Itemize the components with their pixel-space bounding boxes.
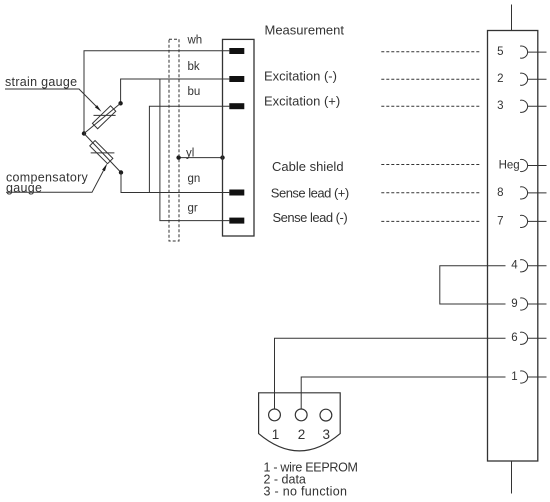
wire bu (blue, Excitation +) with tie-down to gn wire bbox=[149, 106, 229, 192]
compensatory gauge R2 body bbox=[90, 141, 113, 164]
node yl on terminal block bbox=[220, 155, 224, 159]
svg-text:1: 1 bbox=[272, 427, 280, 442]
svg-text:Excitation (-): Excitation (-) bbox=[264, 68, 337, 83]
svg-text:Sense lead (+): Sense lead (+) bbox=[271, 186, 349, 201]
terminal wh bbox=[229, 48, 244, 54]
wire pin 1 to EEPROM pin 2 bbox=[301, 377, 505, 409]
pin 7 bbox=[520, 215, 546, 227]
terminal bk bbox=[229, 76, 244, 82]
svg-text:gr: gr bbox=[188, 203, 198, 215]
pin 9 bbox=[520, 298, 546, 310]
terminal gr bbox=[229, 218, 244, 224]
svg-text:Heg: Heg bbox=[499, 159, 520, 171]
strain gauge R1 body bbox=[92, 106, 115, 129]
strain gauge R1 axis wire bbox=[84, 103, 121, 133]
wire bk (black, Excitation -) from bridge top node to terminal bbox=[121, 79, 230, 103]
compensatory gauge R2 cross line bbox=[91, 152, 115, 154]
svg-text:3 - no function: 3 - no function bbox=[264, 485, 348, 499]
svg-text:7: 7 bbox=[497, 215, 503, 227]
terminal bu bbox=[229, 103, 244, 109]
svg-text:Sense lead (-): Sense lead (-) bbox=[273, 210, 348, 225]
leader line for strain gauge label bbox=[5, 89, 96, 106]
pin Heg bbox=[520, 159, 546, 171]
EEPROM pin 3 circle bbox=[320, 409, 332, 421]
dashed link bk to pin 2 bbox=[381, 78, 480, 80]
wire wh (white) from bridge to terminal block bbox=[84, 51, 229, 134]
svg-text:1: 1 bbox=[511, 371, 517, 383]
dashed link bu to pin 3 bbox=[381, 105, 480, 107]
svg-text:6: 6 bbox=[511, 332, 517, 344]
svg-text:gn: gn bbox=[188, 173, 201, 185]
strain gauge R1 cross line bbox=[94, 114, 116, 116]
terminal block (left connector) bbox=[223, 39, 255, 236]
EEPROM connector body bbox=[259, 393, 341, 451]
svg-text:strain gauge: strain gauge bbox=[5, 75, 77, 89]
node T (top bridge node) bbox=[118, 101, 122, 105]
svg-text:yl: yl bbox=[186, 147, 194, 159]
arrowhead strain gauge bbox=[95, 105, 102, 112]
svg-text:Cable shield: Cable shield bbox=[272, 159, 344, 174]
svg-text:bk: bk bbox=[188, 61, 200, 73]
svg-text:Excitation (+): Excitation (+) bbox=[264, 93, 340, 108]
cable sheath (dashed) bbox=[169, 39, 179, 241]
wire gn (green, Sense +) from bottom node to terminal bbox=[121, 173, 229, 193]
pin 3 bbox=[520, 100, 546, 112]
connector X1 body (right) bbox=[488, 31, 538, 462]
EEPROM pin 2 circle bbox=[295, 409, 307, 421]
wire gr (grey, Sense -) tied to bk wire bbox=[160, 79, 229, 221]
pin 5 bbox=[520, 46, 546, 58]
node B (bottom bridge node) bbox=[119, 170, 123, 174]
svg-text:9: 9 bbox=[511, 298, 517, 310]
svg-text:Measurement: Measurement bbox=[265, 22, 345, 37]
svg-text:bu: bu bbox=[188, 86, 201, 98]
svg-text:wh: wh bbox=[187, 34, 203, 46]
dashed link gr to pin 7 bbox=[381, 220, 480, 222]
dashed link gn to pin 8 bbox=[381, 192, 480, 194]
svg-text:2: 2 bbox=[298, 427, 306, 442]
svg-text:3: 3 bbox=[323, 427, 331, 442]
leader line for compensatory gauge label bbox=[6, 171, 104, 193]
pin 2 bbox=[520, 73, 546, 85]
wire pin 6 to EEPROM pin 1 bbox=[275, 338, 506, 409]
node yl on cable sheath bbox=[176, 155, 180, 159]
svg-text:4: 4 bbox=[511, 260, 518, 272]
svg-text:2: 2 bbox=[497, 73, 503, 85]
svg-text:8: 8 bbox=[497, 187, 503, 199]
pin 4 bbox=[520, 260, 546, 272]
jumper wire pin 4 to pin 9 bbox=[440, 266, 506, 304]
svg-text:3: 3 bbox=[497, 100, 503, 112]
connector X1 top stub wire bbox=[511, 5, 513, 31]
pin 1 bbox=[520, 371, 546, 383]
terminal gn bbox=[229, 190, 244, 196]
arrowhead compensatory gauge bbox=[102, 163, 107, 171]
dashed link wh to pin 5 bbox=[381, 51, 480, 53]
dashed link yl to pin Heg bbox=[381, 164, 480, 166]
pin 6 bbox=[520, 332, 546, 344]
wire yl (yellow, cable shield) bbox=[179, 157, 223, 159]
connector X1 bottom stub wire bbox=[511, 461, 513, 494]
compensatory gauge R2 axis wire bbox=[84, 134, 121, 173]
node L (left bridge node) bbox=[82, 131, 86, 135]
EEPROM pin 1 circle bbox=[269, 409, 281, 421]
pin 8 bbox=[520, 187, 546, 199]
svg-text:5: 5 bbox=[497, 46, 503, 58]
